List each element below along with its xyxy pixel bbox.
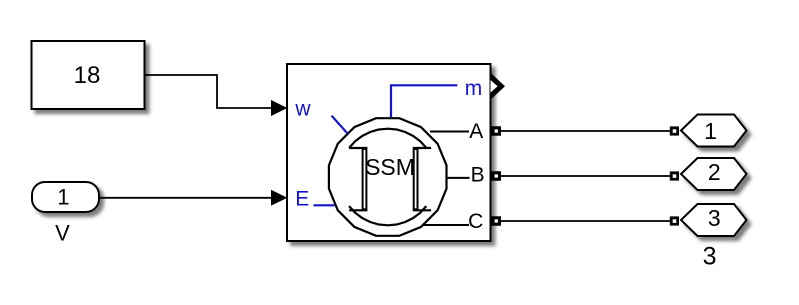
svg-text:V: V xyxy=(55,221,70,246)
svg-text:B: B xyxy=(471,163,485,186)
svg-text:2: 2 xyxy=(708,159,721,185)
svg-text:3: 3 xyxy=(708,205,721,231)
svg-text:1: 1 xyxy=(57,185,69,210)
svg-text:m: m xyxy=(465,77,483,100)
svg-text:w: w xyxy=(294,98,311,121)
svg-text:E: E xyxy=(295,187,309,210)
svg-text:18: 18 xyxy=(74,62,101,89)
svg-text:A: A xyxy=(469,120,483,143)
svg-text:SSM: SSM xyxy=(365,154,415,180)
svg-text:3: 3 xyxy=(703,243,717,271)
svg-text:C: C xyxy=(468,210,483,233)
svg-text:1: 1 xyxy=(704,118,717,144)
